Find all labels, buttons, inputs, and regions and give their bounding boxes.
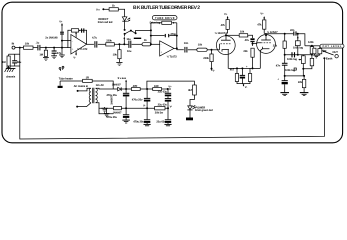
- triode V1a plate: [221, 39, 231, 41]
- capacitor C12 47n: [284, 55, 286, 63]
- svg-text:9 v: 9 v: [96, 8, 100, 11]
- capacitor C7 470p feedback: [151, 35, 165, 37]
- TUBE DRIVE knob label: [152, 16, 177, 20]
- ground for R6: [116, 62, 122, 64]
- resistor R6 10k to ground: [118, 44, 120, 49]
- svg-text:10u: 10u: [126, 38, 131, 41]
- node L plate2: [265, 34, 267, 36]
- footswitch S1 pole 2: [130, 30, 132, 32]
- triode V1a envelope: [216, 36, 235, 55]
- ground out pot: [316, 54, 319, 55]
- capacitor C6 10u: [128, 41, 130, 48]
- wire input jack to node A: [15, 47, 24, 49]
- svg-text:470u 25v: 470u 25v: [133, 121, 144, 124]
- V+ rail A end: [167, 88, 169, 90]
- ground tone left: [280, 92, 289, 94]
- svg-text:47R: 47R: [133, 85, 138, 88]
- resistor R3 1M to ground: [45, 48, 47, 51]
- wire plate1 to R12: [226, 34, 239, 36]
- wire switch to drive rail: [136, 30, 151, 33]
- triode V1b cathode: [262, 47, 269, 49]
- resistor R15 cathode right: [249, 68, 251, 73]
- potentiometer VR4: [301, 56, 305, 64]
- wire V+ branch to power led: [147, 81, 195, 89]
- capacitor C15 22u 63v upper: [167, 89, 169, 93]
- node E junction main: [61, 47, 63, 49]
- resistor R21: [313, 48, 316, 54]
- V+ bias rail: [61, 24, 63, 55]
- svg-text:TUBE DRIVE: TUBE DRIVE: [155, 17, 175, 20]
- wire LED to switch: [124, 21, 126, 30]
- op-amp U1A triangle: [71, 35, 87, 55]
- wire opamp2 output: [174, 48, 184, 49]
- svg-text:22u 63v: 22u 63v: [158, 103, 168, 106]
- wire after C10: [297, 34, 305, 46]
- earth node: [323, 57, 325, 59]
- svg-text:1N4007: 1N4007: [112, 84, 121, 87]
- svg-text:Earth: Earth: [326, 57, 333, 60]
- triode V1a cathode: [222, 50, 229, 52]
- svg-text:12v AC: 12v AC: [96, 84, 105, 87]
- capacitor C3 on bias rail: [60, 31, 64, 33]
- potentiometer VR3 100k log: [297, 33, 299, 35]
- transformer T1 primary: [89, 88, 91, 102]
- mains terminal dots: [77, 90, 79, 92]
- wire drive rail left: [150, 23, 152, 45]
- wire C12 to bottom row: [284, 65, 286, 76]
- OUT LEVEL knob label: [320, 44, 344, 48]
- capacitor C17 470u below: [125, 108, 127, 114]
- resistor R9 10k grid: [197, 48, 207, 51]
- node rail B col1: [125, 107, 127, 109]
- svg-text:2x 1N4148: 2x 1N4148: [45, 37, 58, 40]
- resistor R14 cathode left: [236, 68, 238, 73]
- svg-text:47p: 47p: [57, 52, 62, 55]
- V+ stub op-amp U1A: [75, 32, 77, 37]
- capacitor C14 470u 25v: [146, 89, 148, 98]
- svg-text:V-: V-: [212, 69, 215, 72]
- wire R12 to C9: [248, 35, 253, 38]
- capacitor C10 22n series: [293, 31, 295, 35]
- svg-text:3mm green led: 3mm green led: [195, 109, 213, 112]
- wire grid2 to tube2: [253, 42, 262, 45]
- heater connector circles: [59, 68, 61, 70]
- svg-text:47k: 47k: [257, 23, 262, 26]
- resistor R27 to ground: [303, 76, 305, 80]
- wire R5 to node F: [114, 43, 128, 45]
- wire R7 to opamp2: [151, 43, 160, 45]
- chassis ground: [6, 68, 16, 70]
- tone bottom row: [285, 75, 305, 77]
- svg-text:4k7: 4k7: [230, 68, 235, 71]
- triode V1b envelope: [257, 35, 276, 54]
- resistor R26 rail B: [155, 107, 165, 110]
- svg-text:22k: 22k: [273, 45, 278, 48]
- svg-text:68u: 68u: [17, 61, 22, 64]
- resistor R4 feedback: [71, 29, 78, 32]
- wire opamp1 output: [87, 43, 94, 45]
- svg-text:Tube heater: Tube heater: [59, 77, 73, 80]
- ground bias rail: [59, 54, 65, 56]
- capacitor C16 22u 63v lower: [165, 98, 171, 100]
- node H junction: [150, 43, 152, 45]
- resistor R25 power led: [193, 85, 197, 95]
- resistor R11 47k plate tube1: [226, 20, 229, 30]
- svg-text:1N4007: 1N4007: [113, 112, 122, 115]
- footswitch S1 pole 1: [124, 29, 126, 31]
- capacitor C18 470u below2: [146, 108, 148, 119]
- ground tone right: [300, 92, 309, 94]
- svg-text:22n: 22n: [290, 29, 295, 32]
- node D junction bias: [61, 40, 63, 42]
- transformer T1 core: [92, 88, 94, 103]
- svg-text:47n: 47n: [276, 64, 281, 67]
- chassis stub heater: [59, 81, 61, 86]
- feedback loop wire U1A: [68, 30, 87, 47]
- svg-text:½ TL072: ½ TL072: [77, 48, 88, 51]
- wire R25 to LED: [190, 95, 194, 106]
- svg-text:10k: 10k: [240, 31, 245, 34]
- node rail B col2: [146, 107, 148, 109]
- capacitor C4 feedback: [81, 28, 83, 32]
- node J plate1: [225, 34, 227, 36]
- wires mains to transformer: [78, 88, 91, 91]
- svg-text:V-: V-: [245, 86, 248, 89]
- svg-text:47u: 47u: [245, 39, 250, 42]
- V- stub op-amp U1A: [75, 51, 77, 55]
- node B junction: [45, 47, 47, 49]
- capacitor C8 coupling: [184, 47, 186, 53]
- capacitor C13 470u 25v: [125, 89, 127, 93]
- svg-text:10u: 10u: [127, 50, 132, 53]
- svg-text:-: -: [72, 39, 73, 43]
- transformer T1 secondary: [96, 88, 98, 102]
- earth bus wire: [20, 58, 325, 139]
- svg-text:chassis: chassis: [6, 76, 16, 79]
- svg-text:20k 5w: 20k 5w: [155, 111, 164, 114]
- node rail A aux: [125, 88, 127, 90]
- LED D7 POWER green: [188, 106, 193, 110]
- ground for diodes: [51, 55, 57, 57]
- wire plate2 line: [266, 33, 293, 35]
- cathode node row: [228, 67, 260, 69]
- svg-text:V-: V-: [170, 105, 173, 108]
- psu ground: [106, 108, 108, 113]
- svg-text:220k: 220k: [106, 39, 112, 42]
- node I junction grid1: [211, 49, 213, 51]
- svg-text:10k: 10k: [25, 43, 30, 46]
- svg-text:22u 63v: 22u 63v: [156, 121, 166, 124]
- battery bar: [134, 38, 141, 39]
- wire VR4 to bottom row: [302, 64, 304, 76]
- svg-text:AC mains in: AC mains in: [74, 85, 89, 88]
- wire R2 to C2: [33, 47, 37, 49]
- capacitor C5 4.7u: [94, 41, 96, 47]
- svg-text:1N4007: 1N4007: [110, 95, 113, 104]
- potentiometer VR5 out: [319, 46, 321, 49]
- resistor R23 47R rail A: [131, 88, 140, 91]
- svg-text:½ TL072: ½ TL072: [167, 56, 178, 59]
- resistor R17 22k: [284, 34, 286, 41]
- resistor R8 1k LED: [109, 8, 118, 11]
- V- stub bias: [243, 84, 245, 86]
- ground C17: [122, 119, 130, 121]
- svg-text:10R: 10R: [154, 85, 159, 88]
- page border: [2, 2, 343, 143]
- svg-text:10k: 10k: [113, 53, 118, 56]
- capacitor C20 bias electrolytic: [241, 68, 243, 75]
- node F junction: [118, 43, 120, 45]
- wire plate resistor to tube1: [226, 29, 228, 40]
- ground C18: [144, 123, 151, 125]
- node G junction to switch: [123, 43, 125, 45]
- svg-text:22k: 22k: [243, 50, 248, 53]
- ground power led solid: [186, 118, 193, 121]
- svg-text:22k: 22k: [298, 81, 303, 84]
- svg-text:V+: V+: [59, 20, 63, 23]
- wire C6 to R7: [132, 43, 142, 45]
- op-amp U1B triangle: [160, 41, 174, 56]
- input jack J1 IN: [12, 46, 15, 49]
- svg-text:10k: 10k: [198, 44, 203, 47]
- resistor R16 47k plate tube2: [263, 20, 266, 29]
- node C junction: [53, 47, 55, 49]
- wire input RC bottom rail: [7, 65, 20, 67]
- wire C5 to R5: [98, 43, 106, 45]
- resistor R5 220k: [106, 43, 115, 46]
- wire 9v to R8: [104, 8, 109, 10]
- svg-text:470u 25v: 470u 25v: [132, 99, 143, 102]
- wire node G up to footswitch arrow: [123, 38, 125, 45]
- wire heater line: [60, 80, 83, 82]
- svg-text:V+: V+: [168, 85, 172, 88]
- wire row to out: [305, 45, 320, 47]
- svg-text:B K BUTLER TUBE DRIVER REV 2: B K BUTLER TUBE DRIVER REV 2: [133, 5, 200, 11]
- svg-text:V-: V-: [73, 57, 76, 60]
- wiper terminal box: [294, 68, 296, 70]
- svg-text:9 v aux: 9 v aux: [118, 77, 127, 80]
- capacitor C21 electrolytic to ground: [284, 76, 286, 81]
- diode D5 rail B: [114, 106, 122, 109]
- resistor R13 22k: [251, 48, 254, 57]
- wire node A down to input RC: [19, 48, 21, 66]
- svg-text:22u 63v: 22u 63v: [158, 91, 168, 94]
- wire bias to opamp: [62, 40, 71, 42]
- svg-text:-: -: [161, 43, 162, 47]
- resistor R1 1M input: [7, 56, 10, 68]
- wire switch to main line: [124, 35, 126, 37]
- rail B wire: [99, 107, 169, 109]
- triode V1a grid: [220, 43, 231, 45]
- svg-text:4k7: 4k7: [188, 89, 193, 92]
- svg-text:3mm red led: 3mm red led: [98, 21, 113, 24]
- svg-text:47k: 47k: [221, 24, 226, 27]
- node rail B col3: [167, 107, 169, 109]
- resistor R20: [310, 58, 314, 65]
- wire C2 to opamp input node: [40, 47, 70, 49]
- svg-text:10n: 10n: [184, 42, 189, 45]
- wire plate resistor to tube2: [263, 29, 265, 33]
- svg-text:IN: IN: [12, 42, 15, 45]
- node rail A V+ branch: [146, 88, 148, 90]
- svg-text:4.7u: 4.7u: [92, 37, 97, 40]
- svg-text:220k: 220k: [203, 57, 209, 60]
- wire heater to rectifier: [92, 81, 113, 89]
- capacitor C2 .1u series: [37, 45, 39, 51]
- wire R9 to grid node: [207, 49, 218, 51]
- resistor R22 heater: [83, 79, 93, 82]
- svg-text:120k: 120k: [308, 41, 314, 44]
- svg-text:.1u: .1u: [36, 42, 40, 45]
- node A junction: [19, 47, 21, 49]
- svg-text:V+: V+: [260, 13, 264, 16]
- wire C9 to grid2 node: [252, 42, 254, 46]
- wire R8 to LED: [118, 9, 124, 16]
- psu ground: [104, 112, 106, 114]
- capacitor C19 22u below3: [167, 108, 169, 119]
- resistor R24 10R rail A: [153, 88, 162, 91]
- svg-text:100k log: 100k log: [293, 46, 303, 49]
- svg-text:V+: V+: [224, 13, 228, 16]
- svg-text:470p: 470p: [170, 33, 176, 36]
- svg-text:100k log: 100k log: [287, 58, 297, 61]
- node K grid2: [252, 43, 254, 45]
- wire C8 to R9: [188, 49, 197, 51]
- svg-text:½ 12AX7: ½ 12AX7: [215, 32, 226, 35]
- capacitor C11 on mid row: [291, 52, 293, 57]
- wire bias bottom rail: [237, 82, 250, 84]
- potentiometer VR1 drive: [151, 22, 162, 24]
- svg-text:470u 25v: 470u 25v: [106, 116, 117, 119]
- diodes D1 D2 clipping pair: [53, 48, 55, 51]
- wire LED to ground: [189, 110, 191, 118]
- rail A wire: [122, 88, 172, 90]
- wiper to OUT jack: [322, 51, 334, 55]
- svg-text:V-: V-: [143, 104, 146, 107]
- triode V1b grid: [261, 42, 271, 44]
- triode V1b plate: [261, 39, 271, 41]
- ground for R3: [43, 57, 49, 59]
- resistor R12 10k interstage: [239, 34, 248, 37]
- wire drive rail right: [176, 23, 178, 49]
- capacitor C9 47u electrolytic: [250, 38, 254, 40]
- svg-text:OUT: OUT: [332, 51, 338, 54]
- svg-text:1R: 1R: [86, 76, 89, 79]
- capacitor C1 input: [14, 54, 16, 60]
- ground C19: [164, 123, 171, 125]
- mid line treble row: [285, 54, 312, 56]
- wire secondary bottom to rail B: [96, 103, 114, 114]
- svg-text:OUT LEVEL: OUT LEVEL: [322, 45, 341, 48]
- resistor R7 1k series: [142, 43, 151, 46]
- wire input RC top rail: [9, 53, 20, 55]
- resistor R10 220k to V-: [211, 50, 213, 54]
- wire secondary top to rail A: [96, 87, 118, 90]
- resistor R2 10k series input: [24, 46, 34, 49]
